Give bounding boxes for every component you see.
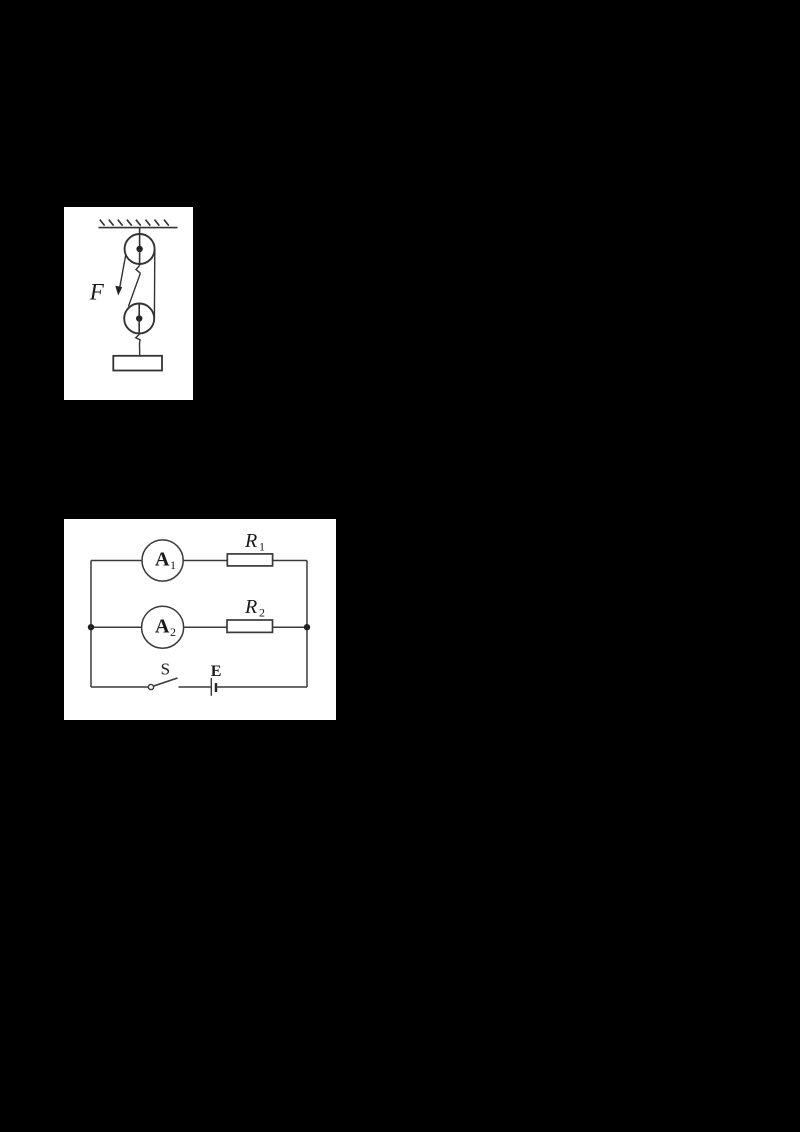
- wire R2 to right: [273, 626, 308, 628]
- slanted link to movable pulley: [128, 273, 140, 306]
- rope right: [153, 249, 155, 319]
- support line: [139, 228, 141, 249]
- ammeter A2: [142, 606, 184, 648]
- svg-text:E: E: [211, 663, 222, 680]
- svg-text:R: R: [244, 530, 257, 552]
- axle line through P1: [139, 249, 141, 266]
- wire bottom left segment: [91, 686, 148, 688]
- resistor R2: [227, 620, 273, 632]
- hook zigzag below P1: [136, 266, 140, 274]
- resistor R1: [227, 554, 272, 566]
- svg-text:F: F: [89, 279, 105, 304]
- arrowhead F: [115, 286, 122, 296]
- node dot right: [304, 624, 310, 630]
- svg-text:R: R: [244, 596, 257, 618]
- svg-text:2: 2: [170, 625, 176, 639]
- pulley diagram panel: [64, 207, 193, 400]
- wire mid left segment: [91, 626, 142, 628]
- wire top left segment: [91, 560, 142, 562]
- switch lever: [154, 678, 178, 686]
- svg-text:2: 2: [259, 606, 265, 620]
- fixed pulley axle dot: [136, 246, 142, 252]
- svg-text:1: 1: [170, 558, 176, 572]
- fixed pulley P1: [125, 234, 155, 264]
- ceiling hatching: [100, 220, 169, 226]
- switch pivot circle: [148, 684, 153, 689]
- ceiling: [99, 227, 178, 229]
- svg-text:A: A: [155, 615, 170, 637]
- axle line through P2: [138, 304, 140, 335]
- wire A2 to R2: [184, 626, 228, 628]
- node dot left: [88, 624, 94, 630]
- wire R1 to right: [273, 560, 308, 562]
- wire battery to right: [216, 686, 307, 688]
- rope left (F side): [119, 254, 126, 292]
- circuit diagram panel: [64, 519, 336, 720]
- battery short plate: [215, 683, 217, 692]
- weight block: [113, 356, 162, 371]
- svg-text:1: 1: [259, 540, 265, 554]
- wire A1 to R1: [183, 560, 227, 562]
- wire switch to battery: [179, 686, 212, 688]
- movable pulley axle dot: [136, 315, 142, 321]
- hook zigzag below P2: [136, 334, 140, 356]
- svg-text:A: A: [155, 549, 170, 571]
- wire left vertical: [90, 561, 92, 688]
- movable pulley P2: [124, 304, 154, 334]
- wire right vertical: [306, 561, 308, 688]
- battery long plate: [210, 678, 212, 696]
- svg-text:S: S: [161, 660, 170, 679]
- ammeter A1: [142, 540, 183, 581]
